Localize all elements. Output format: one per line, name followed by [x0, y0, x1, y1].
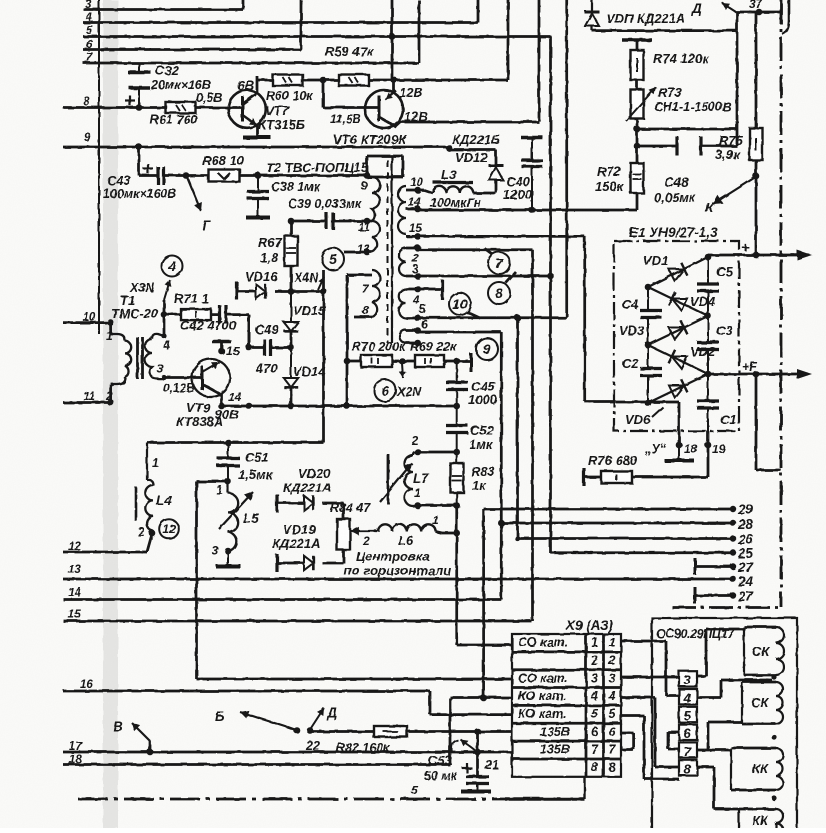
wire T2 pin12 stub [344, 251, 372, 254]
wire row4 feed [450, 696, 512, 699]
label L3 [441, 167, 457, 182]
winding T2 sec 4-5 [399, 289, 406, 318]
label T1 name [111, 306, 159, 321]
label 26 [737, 532, 754, 547]
resistor R74 [631, 50, 644, 80]
wire R69 out [444, 360, 457, 363]
wire VD12 top [449, 147, 496, 164]
junction F-vert [753, 371, 760, 378]
diode VD4 [648, 287, 708, 316]
label C43 value [103, 187, 177, 201]
wire line8 [63, 106, 166, 109]
label C40 value [503, 187, 533, 202]
wire pin2 trunk [531, 250, 534, 621]
capacitor C40 [521, 138, 543, 211]
wire line9 [63, 146, 449, 149]
wire line11 [63, 401, 111, 404]
transformer T1 core [138, 337, 143, 379]
resistor R60 [273, 75, 303, 86]
stray page mark 5 [411, 783, 418, 797]
label R70 [352, 340, 406, 354]
wire T2 bottom pin [406, 340, 421, 347]
module boundary above OC block [672, 606, 781, 609]
wire T2 pin9 stub [367, 176, 372, 179]
wire x196 column [195, 482, 198, 680]
wire VD11 bus [592, 29, 737, 32]
label T2 pin12 [357, 244, 370, 256]
label C1 [720, 412, 737, 427]
label VT9 name [176, 400, 223, 429]
label VT6 name [333, 132, 407, 147]
label L4 [156, 493, 172, 508]
wire E1 plus out [708, 255, 808, 257]
wire R72 bottom [636, 193, 639, 210]
wire pin2 link [418, 248, 533, 251]
wire v3 pin6-line14 [500, 332, 503, 600]
label VD3 [619, 323, 645, 338]
label T2 [266, 160, 369, 175]
arrowhead plus [797, 250, 812, 260]
circled 8 [488, 282, 510, 304]
label D(Д) sw [326, 705, 337, 720]
label X2N [396, 385, 422, 399]
wire X9 row5 stub [621, 716, 679, 780]
junction line9-VD12 [446, 145, 453, 152]
junction C49 [288, 344, 295, 351]
junction C45-bus [453, 403, 460, 410]
wire C53 drop [476, 732, 479, 777]
capacitor C32 [125, 63, 151, 108]
inductor L4 core [135, 487, 138, 521]
junction X2N tap [399, 358, 406, 365]
wire C39 right [333, 220, 367, 223]
diode VD11 [585, 0, 600, 31]
label VT9 pin15 [226, 344, 240, 358]
wire VT6 base drop [323, 80, 378, 108]
winding T2 primary 7-8 [372, 270, 380, 317]
capacitor C38 [247, 176, 269, 217]
junction R73-loop [634, 126, 641, 133]
resistor R82 [374, 726, 407, 737]
wire T1 pin4 riser [163, 300, 166, 336]
wire R60 out [302, 79, 338, 82]
label R82 [336, 741, 390, 755]
circled 7 [488, 252, 510, 274]
capacitor C3 [697, 316, 719, 374]
label T2 pin9 num [361, 181, 368, 193]
junction pin19 [705, 442, 712, 449]
wire T2 pin4 [406, 286, 421, 293]
label 6V [237, 78, 255, 93]
label T2 pin14 [408, 197, 421, 209]
label C49 [255, 322, 280, 337]
arrow R84 wiper [351, 527, 377, 535]
coil CK2 [742, 682, 783, 724]
wire VT7 collector [257, 76, 273, 93]
junction v6-y276 [547, 273, 554, 280]
label X3N [129, 281, 155, 295]
transformer T2 core [388, 155, 393, 343]
wire VD16 in [237, 290, 256, 293]
module boundary bottom [78, 798, 505, 801]
varistor R73 [626, 87, 656, 121]
label C2 [622, 356, 639, 371]
inductor L4 [145, 443, 153, 534]
diode VD1 [648, 257, 708, 287]
wire row6 feed (R82 net) [310, 730, 512, 733]
inductor L7 core [387, 454, 390, 504]
arrow X4N [318, 277, 324, 290]
wire T2 pin7 stub [347, 274, 372, 277]
junction sw1 [294, 727, 301, 734]
wire v2 29-row4 [484, 509, 733, 698]
node 15 label [68, 609, 81, 621]
label VD14 [293, 364, 326, 379]
arrow G pointer [187, 177, 202, 211]
label V(В) [113, 719, 123, 734]
wire 25 line [551, 551, 734, 554]
junction L5 pin3 [225, 548, 232, 555]
label L6 pin2 [362, 534, 370, 548]
wire HV to E1 [585, 236, 616, 401]
label VD11 [606, 11, 685, 26]
wire R71 out [211, 313, 219, 316]
inductor L3 core [433, 181, 473, 184]
junction R68-C38 [255, 172, 262, 179]
junction C51 top [225, 439, 232, 446]
label 27b [737, 589, 755, 604]
wire E1 pin19 [707, 431, 710, 477]
label R76 [588, 453, 638, 468]
label T1 pin3 [157, 362, 164, 376]
capacitor C53 [461, 763, 491, 792]
wire C51-x196 [197, 480, 229, 483]
junction C40 bottom [529, 207, 536, 214]
wire VT9 base [161, 375, 202, 380]
label C53 [424, 753, 458, 783]
junction L7 pin2 [414, 449, 421, 456]
terminal VD19 [275, 554, 278, 572]
node 8 label [83, 96, 90, 108]
capacitor C52 [446, 406, 468, 452]
wire line10 [63, 321, 111, 324]
coil CK1 [744, 627, 784, 675]
label C39 [288, 197, 362, 211]
wire riser x566 [565, 0, 568, 317]
arrow K pointer [713, 178, 754, 204]
label R83 [471, 464, 496, 493]
wire line13 (terminal 24) [63, 578, 733, 581]
capacitor C5 [697, 257, 719, 316]
label E1 [629, 225, 718, 240]
wire y276 link [418, 275, 551, 278]
inductor L5 [228, 482, 238, 552]
label 12V upper [399, 85, 423, 100]
wire bus y443 [147, 441, 324, 444]
label 90V [215, 407, 239, 422]
node E1 L2 [645, 342, 652, 349]
label VD2 [690, 344, 716, 359]
resistor R71 [164, 309, 211, 320]
wire VD19 out [322, 550, 344, 563]
wire R75 riser [755, 12, 758, 128]
terminal C38 bottom [246, 216, 270, 220]
wire R70-R69 [392, 360, 415, 363]
resistor R69 [415, 355, 444, 367]
wire line14 [63, 598, 501, 601]
label L6 [398, 533, 414, 548]
wire T2 pin9 jog [367, 156, 403, 177]
wire v6 line5-25 [549, 37, 552, 554]
label R72 [595, 164, 625, 194]
wire VT6 collector [396, 122, 539, 127]
wire T1 pin1 [111, 323, 113, 334]
wire line18 [63, 698, 450, 765]
wire T2 pin6 [406, 327, 421, 334]
wire F drop [756, 374, 781, 470]
transformer T1 right winding [145, 334, 164, 379]
junction VD16-R67 [288, 288, 295, 295]
node E1 L1 [645, 284, 652, 291]
label L7 [413, 471, 430, 486]
polarity dot KK1 [771, 734, 776, 739]
junction R70 tap [344, 358, 351, 365]
label R73 [654, 85, 731, 114]
terminal 27b [695, 587, 736, 604]
junction pin18 [676, 442, 683, 449]
label R60 [266, 89, 313, 103]
label X4N [293, 271, 319, 285]
winding T2 primary 9-11 [372, 177, 380, 221]
label 22 [305, 739, 320, 753]
label T2 pin7 [362, 282, 370, 296]
label R84 [330, 501, 371, 515]
junction v4 top [514, 314, 521, 321]
wire R67 bottom [290, 266, 293, 292]
diode VD3 [648, 316, 708, 345]
wire R73 loop [637, 31, 737, 129]
label R61 [150, 113, 197, 127]
arrowhead F [797, 369, 812, 379]
wire line16 [63, 691, 430, 715]
circled 5 [322, 248, 344, 270]
wire line5 [83, 35, 551, 38]
label centering2 [344, 563, 451, 578]
junction K [753, 173, 760, 180]
wire CK1 top link [697, 629, 744, 676]
capacitor C45 [446, 361, 468, 406]
diode VD19 [277, 556, 313, 570]
junction C42drop-bus [246, 403, 253, 410]
capacitor C43 [139, 164, 186, 185]
wire C39 left [291, 220, 326, 223]
polarity dot CK1 [771, 674, 776, 679]
label D [691, 1, 702, 16]
polarity dot KK2 [771, 795, 776, 800]
label L5 [243, 511, 259, 526]
label C4 [622, 297, 639, 312]
label VD6 [625, 412, 651, 427]
label R74 [653, 51, 710, 66]
coil KK2 [739, 809, 783, 833]
capacitor C51 [217, 443, 240, 482]
label T2 pin10 [410, 177, 423, 189]
wire CK2 bottom link [697, 722, 742, 750]
junction T2 pin12 [364, 249, 371, 256]
wire X9 row4 stub [621, 698, 679, 768]
arrow G2 pointer [452, 739, 476, 752]
label 28 [737, 517, 754, 532]
label CK1 [752, 644, 770, 659]
capacitor C42 [220, 305, 227, 324]
label plusF [742, 360, 757, 374]
coil KK1 [731, 748, 783, 790]
label R68 [202, 153, 245, 168]
terminal bar 10 [418, 280, 443, 300]
label T2 pin8 [362, 303, 369, 317]
wire VT7 base [196, 106, 242, 109]
arrow to circled4 [164, 280, 171, 300]
label C5 [716, 264, 733, 279]
junction line10 [107, 319, 114, 326]
label R69 [410, 340, 457, 354]
winding T2 sec 10-15 [398, 186, 406, 234]
capacitor C4 [640, 287, 662, 345]
junction VT6 emitter [391, 77, 398, 84]
wire R67 top [288, 218, 295, 236]
inductor L7 [405, 452, 418, 506]
wire T2 pin2 [406, 245, 421, 252]
junction VD14-bus [288, 403, 295, 410]
wire T2 pin5 [406, 315, 421, 322]
wire riser x323 [322, 270, 325, 443]
resistor R76 [584, 471, 708, 483]
diode VD16 [256, 284, 265, 298]
wire v4 pin5-26 [516, 318, 519, 539]
terminal R76 left [582, 468, 585, 486]
wire r1 feeder [457, 506, 512, 646]
resistor R61 [166, 102, 196, 113]
node 7 label [86, 52, 93, 64]
link circ8 [506, 272, 516, 283]
wire line12 [63, 534, 152, 552]
wire 26 end [730, 535, 736, 541]
label T1 pin1 [106, 329, 113, 343]
wire T2pin6 link [418, 331, 501, 334]
node E1 R2 [705, 313, 712, 320]
label KK1 [752, 761, 769, 776]
node 5 label [86, 25, 93, 37]
wire T1 pin2 [111, 384, 113, 403]
wire E1 entry bottom [616, 401, 679, 404]
wire T2pin5 link [418, 316, 567, 319]
wire line7 [83, 0, 419, 63]
capacitor C49 [265, 339, 292, 356]
diode VD2 [648, 345, 708, 374]
circled 4 [162, 256, 183, 277]
junction L4 pin2 [149, 530, 156, 537]
page edge line [98, 0, 100, 334]
node 18 label [69, 754, 82, 766]
wire C42 out [226, 315, 249, 348]
label T2 pin3 [412, 264, 419, 276]
node 14 label [68, 587, 81, 599]
label T2 pin6 [421, 319, 428, 331]
circled 9 [476, 338, 498, 360]
label VD20 [283, 466, 331, 495]
diode VD20 [277, 496, 313, 510]
label VT7 name [258, 103, 305, 132]
wire line17 (X9 pin7) [63, 751, 512, 754]
label X9 [565, 618, 614, 633]
label C45 [468, 379, 498, 407]
wire E1 pin18 [678, 402, 681, 445]
wire line5 riser [391, 0, 394, 37]
wire L7 pin2 [418, 451, 457, 454]
label 37 [749, 0, 764, 11]
node E1 R1 [705, 254, 712, 261]
wire line6 [83, 0, 301, 50]
node 9 label [84, 132, 91, 144]
node 11 label [83, 391, 95, 403]
label C3 [716, 323, 733, 338]
capacitor C1 [697, 374, 719, 431]
label L4 pin2 [137, 525, 145, 539]
label centering1 [356, 549, 430, 564]
junction 37 [756, 9, 763, 16]
wire R74-R73 [636, 80, 639, 90]
wire 29 end [730, 506, 736, 512]
wire R73 bottom [636, 118, 639, 163]
wire E1 F out [708, 373, 808, 376]
label T2 pin4 [412, 295, 420, 307]
wire VD12 bottom [473, 180, 496, 193]
junction V-line17 [147, 749, 154, 756]
wire T2 pin15 [406, 233, 585, 240]
diode VD14 [284, 348, 298, 388]
junction R69-C45 [453, 358, 460, 365]
label C48 [654, 175, 697, 205]
label OC block [656, 627, 735, 641]
wire VT9 emitter [220, 394, 223, 406]
junction v2-row4 [480, 695, 487, 702]
label L3 value [430, 196, 482, 210]
label C32 [155, 63, 180, 78]
diode VD15 [284, 292, 298, 332]
junction x347-bus [344, 403, 351, 410]
capacitor C39 [327, 213, 334, 230]
capacitor C2 [640, 345, 662, 403]
wire OC pin8 stub [0, 0, 1, 1]
wire R68 out [240, 174, 259, 177]
label T2 pin11 [358, 222, 370, 234]
junction R73-C48 [634, 143, 641, 150]
wire R63 out [369, 79, 508, 82]
wire T2 pin11 stub [367, 220, 372, 223]
wire 24 end [730, 576, 737, 583]
label 18 [684, 442, 698, 456]
winding T2 primary 11-12 [372, 221, 380, 252]
OC pin column [679, 671, 697, 776]
junction VT9 coll [218, 348, 225, 355]
label T2 pin2 [411, 253, 419, 265]
transformer T1 left winding [111, 334, 131, 384]
node 6 label [86, 39, 93, 51]
label 12V lower [404, 109, 428, 124]
terminal circ9 [457, 353, 471, 372]
resistor R84 [337, 519, 350, 550]
wire 28 end [730, 520, 736, 526]
